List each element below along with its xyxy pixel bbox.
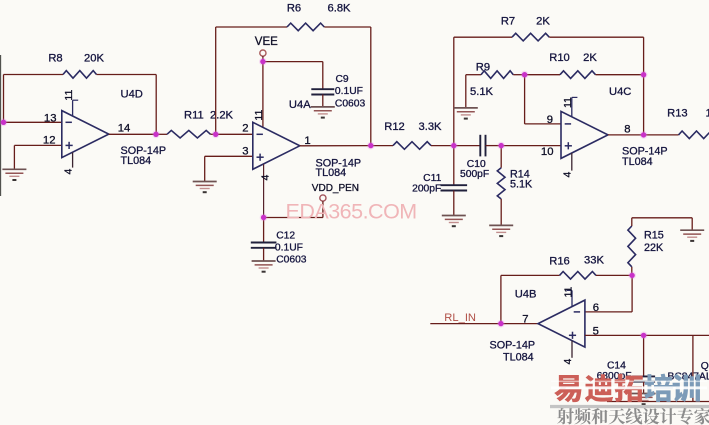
wire pin 2 of U4A <box>216 133 253 135</box>
resistor R10 <box>560 71 596 79</box>
svg-text:11: 11 <box>63 90 75 101</box>
junction R11 / R6 / U4A pin2 node <box>212 130 220 138</box>
wire pin 3 of U4A <box>205 155 253 157</box>
svg-text:R10: R10 <box>549 52 570 64</box>
wire cropped net at left edge <box>0 55 2 196</box>
svg-text:500pF: 500pF <box>460 169 489 180</box>
wire U4A output pin 1 <box>300 145 371 147</box>
resistor R14 <box>497 168 505 199</box>
wire R15 top horizontal to ground <box>632 217 692 219</box>
wire down to R14 <box>500 146 502 168</box>
wire VEE to junction <box>262 56 264 62</box>
wire U4A out to R12 <box>371 145 393 147</box>
wire R6 right leg <box>370 27 372 146</box>
svg-text:2: 2 <box>242 122 248 134</box>
wire into R11 <box>156 133 167 135</box>
op-amp U4C plus mark <box>565 142 572 149</box>
wire C10 to node <box>486 145 502 147</box>
svg-text:RL_IN: RL_IN <box>444 312 476 324</box>
svg-text:VDD_PEN: VDD_PEN <box>312 183 359 194</box>
wire pin3 to ground <box>204 156 206 181</box>
svg-text:2K: 2K <box>536 15 550 27</box>
wire down to C11 <box>453 146 455 186</box>
svg-text:20K: 20K <box>84 52 104 64</box>
wire R8 top left segment <box>4 74 64 76</box>
svg-text:3: 3 <box>242 146 248 158</box>
watermark logo underline bar <box>550 405 709 408</box>
wire pin 5 of U4B <box>585 334 644 336</box>
wire U4C output pin 8 <box>608 134 644 136</box>
junction U4C output node <box>640 131 648 139</box>
svg-text:4: 4 <box>63 169 75 175</box>
svg-text:SOP-14P: SOP-14P <box>490 339 536 351</box>
op-amp U4A minus mark <box>257 133 263 135</box>
wire down to C14 <box>643 335 645 376</box>
wire RL_IN input <box>430 323 501 325</box>
wire node to R10 <box>525 74 560 76</box>
wire R6 left leg <box>215 27 217 134</box>
junction R9 / R10 / U4C pin9 node <box>521 71 529 79</box>
svg-text:VEE: VEE <box>255 36 278 48</box>
ground for R9 <box>454 108 478 119</box>
svg-text:13: 13 <box>44 113 57 125</box>
junction R10 / R7 node <box>640 71 648 79</box>
wire R6 top left segment <box>216 26 287 28</box>
wire R16 to node <box>596 274 632 276</box>
svg-text:10: 10 <box>541 146 554 158</box>
svg-text:R6: R6 <box>287 3 301 15</box>
svg-text:8: 8 <box>624 123 630 135</box>
power port VEE circle <box>260 50 266 56</box>
resistor R16 <box>560 272 597 280</box>
op-amp U4B plus mark <box>569 332 576 339</box>
svg-text:2K: 2K <box>583 52 597 64</box>
svg-text:R7: R7 <box>501 15 515 27</box>
svg-text:R8: R8 <box>48 52 62 64</box>
wire C11 to ground <box>453 191 455 216</box>
svg-text:7: 7 <box>522 314 528 326</box>
port VDD_PEN circle <box>320 195 326 201</box>
resistor R12 <box>393 142 431 150</box>
ground for C14 <box>632 394 656 405</box>
pin 11 stub of U4B <box>571 290 573 306</box>
wire pin 9 of U4C <box>525 123 561 125</box>
svg-text:200pF: 200pF <box>412 183 441 194</box>
pin 4 stub and wire from U4A to VDD_PEN node <box>263 164 265 217</box>
junction VEE branch <box>259 58 267 66</box>
pin 11 stub of U4C <box>571 97 573 117</box>
op-amp U4A plus mark <box>257 154 264 161</box>
svg-text:0.1UF: 0.1UF <box>335 86 363 97</box>
pin 4 stub of U4C <box>571 153 573 171</box>
capacitor C10 <box>480 135 485 157</box>
op-amp U4C minus mark <box>565 123 571 125</box>
wire VEE branch to C9 <box>263 61 323 63</box>
pin 11 stub of U4D <box>72 100 74 116</box>
ground for R15 <box>680 230 704 241</box>
wire R7 top left segment <box>454 36 512 38</box>
wire to C12 <box>263 218 265 243</box>
wire R9 left corner <box>466 74 481 76</box>
ground for C9 <box>311 107 335 118</box>
svg-text:C0603: C0603 <box>276 255 307 266</box>
svg-text:R9: R9 <box>476 62 490 74</box>
resistor R8 <box>63 71 97 79</box>
resistor R7 <box>512 33 549 41</box>
op-amp U4C triangle <box>561 111 608 158</box>
wire R6 top right segment <box>324 26 371 28</box>
svg-text:U4D: U4D <box>121 89 143 101</box>
wire down to U4C pin 9 <box>524 75 526 124</box>
op-amp U4D triangle <box>62 111 109 158</box>
svg-text:R16: R16 <box>549 255 570 267</box>
svg-text:TL084: TL084 <box>316 167 347 179</box>
svg-text:C0603: C0603 <box>335 98 366 109</box>
junction U4A pin4 / C12 node <box>260 214 268 222</box>
wire R8 right segment <box>97 74 157 76</box>
wire to U4B output pin 7 <box>501 323 539 325</box>
wire C14 to ground <box>643 382 645 394</box>
svg-text:12: 12 <box>43 134 56 146</box>
wire R10 to right node <box>596 74 644 76</box>
svg-text:6: 6 <box>593 302 599 314</box>
svg-text:C14: C14 <box>607 361 626 372</box>
svg-text:1: 1 <box>706 107 709 119</box>
svg-text:C12: C12 <box>276 231 295 242</box>
wire left leg down to pin13 node <box>3 75 5 123</box>
svg-text:11: 11 <box>562 97 574 108</box>
pin 4 stub of U4D <box>72 152 74 167</box>
svg-text:C9: C9 <box>336 74 349 85</box>
wire R9 leg to ground <box>465 75 467 108</box>
svg-text:U4B: U4B <box>515 289 537 301</box>
junction U4B output / feedback node <box>497 320 505 328</box>
capacitor C11 <box>441 185 468 190</box>
svg-text:9: 9 <box>547 114 553 126</box>
wire R7 top right segment <box>549 36 643 38</box>
svg-text:4: 4 <box>562 359 574 365</box>
junction U4A output node <box>367 142 375 150</box>
wire pin 13 of U4D <box>4 121 62 123</box>
svg-text:5.1K: 5.1K <box>510 179 533 191</box>
resistor R9 <box>481 71 513 79</box>
wire down to ground <box>691 218 693 230</box>
resistor R11 <box>167 130 211 138</box>
op-amp U4B minus mark <box>574 311 580 313</box>
wire node to U4C pin 10 <box>501 145 561 147</box>
wire Q1 vertical <box>692 335 694 401</box>
ground for R14 <box>489 225 513 236</box>
wire pin 6 of U4B vertical <box>631 275 633 312</box>
ground for U4A non-inverting input <box>193 182 217 193</box>
op-amp U4B triangle (mirrored) <box>538 300 585 347</box>
op-amp U4D minus mark <box>66 121 72 123</box>
resistor R6 <box>287 23 324 31</box>
svg-text:11: 11 <box>562 286 574 297</box>
wire VEE down to U4A pin 11 <box>262 62 264 128</box>
svg-text:U4C: U4C <box>609 86 631 98</box>
svg-text:6.8K: 6.8K <box>327 3 351 15</box>
capacitor C9 <box>311 89 334 94</box>
svg-text:EDA365.COM: EDA365.COM <box>286 199 417 223</box>
wire R8 right leg down to U4D output <box>155 75 157 135</box>
junction R16 / R15 / U4B pin6 node <box>628 272 636 280</box>
watermark logo highlight stripe <box>551 381 707 383</box>
svg-text:2.2K: 2.2K <box>210 109 234 121</box>
wire R12 to node <box>431 145 454 147</box>
svg-text:14: 14 <box>118 123 131 135</box>
resistor R13 <box>679 131 709 139</box>
capacitor C12 <box>251 243 277 248</box>
wire R16 feedback top segment <box>501 274 560 276</box>
wire R7 left leg <box>453 37 455 145</box>
ground for C12 <box>252 261 276 272</box>
svg-text:R13: R13 <box>667 107 688 119</box>
svg-text:4: 4 <box>260 175 272 181</box>
svg-text:5.1K: 5.1K <box>470 86 494 98</box>
junction U4D output node <box>152 130 160 138</box>
svg-text:U4A: U4A <box>289 99 311 111</box>
wire R16 feedback left leg <box>500 275 502 323</box>
junction U4B pin5 / C14 node <box>640 332 648 340</box>
svg-text:R11: R11 <box>184 109 204 121</box>
svg-text:4: 4 <box>562 172 574 178</box>
op-amp U4A triangle <box>253 122 300 169</box>
junction R12 / C10 / C11 / R7 node <box>450 142 458 150</box>
wire U4D output pin 14 <box>109 133 156 135</box>
svg-text:R12: R12 <box>384 121 405 133</box>
wire VDD_PEN node horizontal <box>264 217 323 219</box>
wire pin5 node to right edge <box>644 334 709 336</box>
wire R9 to node <box>513 74 524 76</box>
watermark logo text (red/teal) <box>554 374 700 403</box>
svg-text:R15: R15 <box>644 229 664 241</box>
svg-text:5: 5 <box>593 325 599 337</box>
svg-text:22K: 22K <box>644 242 664 254</box>
watermark tagline gray text <box>557 408 709 425</box>
ground for U4D non-inverting input <box>2 169 26 180</box>
wire R14 to ground <box>500 199 502 225</box>
wire R11 to node <box>211 133 216 135</box>
svg-text:Q: Q <box>701 361 709 372</box>
junction at U4D inverting input net <box>0 118 7 126</box>
wire C12 to ground <box>263 248 265 261</box>
wire R15 top <box>631 218 633 226</box>
svg-text:TL084: TL084 <box>121 155 152 167</box>
wire down to C9 top <box>322 62 324 90</box>
wire pin12 down to ground <box>13 145 15 169</box>
svg-text:TL084: TL084 <box>503 352 534 364</box>
op-amp U4D plus mark <box>66 142 73 149</box>
wire VDD_PEN down <box>322 201 324 217</box>
capacitor C14 <box>632 376 655 381</box>
ground for C11 <box>442 216 466 227</box>
svg-text:0.1UF: 0.1UF <box>275 243 303 254</box>
wire pin 12 of U4D <box>14 144 61 146</box>
svg-text:3.3K: 3.3K <box>418 121 442 133</box>
wire U4C out to R13 <box>644 134 679 136</box>
svg-text:1: 1 <box>304 135 310 147</box>
wire pin 6 of U4B <box>585 311 632 313</box>
resistor R15 <box>628 226 636 267</box>
wire node to C10 <box>454 145 481 147</box>
svg-text:33K: 33K <box>584 255 604 267</box>
svg-text:11: 11 <box>253 110 265 121</box>
junction C10 / R14 node <box>497 142 505 150</box>
wire R15 bottom <box>631 267 633 276</box>
pin 4 stub of U4B <box>571 341 573 358</box>
wire R7 right leg <box>643 37 645 135</box>
wire bottom net to right edge <box>607 401 709 403</box>
svg-text:TL084: TL084 <box>622 156 653 168</box>
wire C9 to ground <box>322 95 324 107</box>
